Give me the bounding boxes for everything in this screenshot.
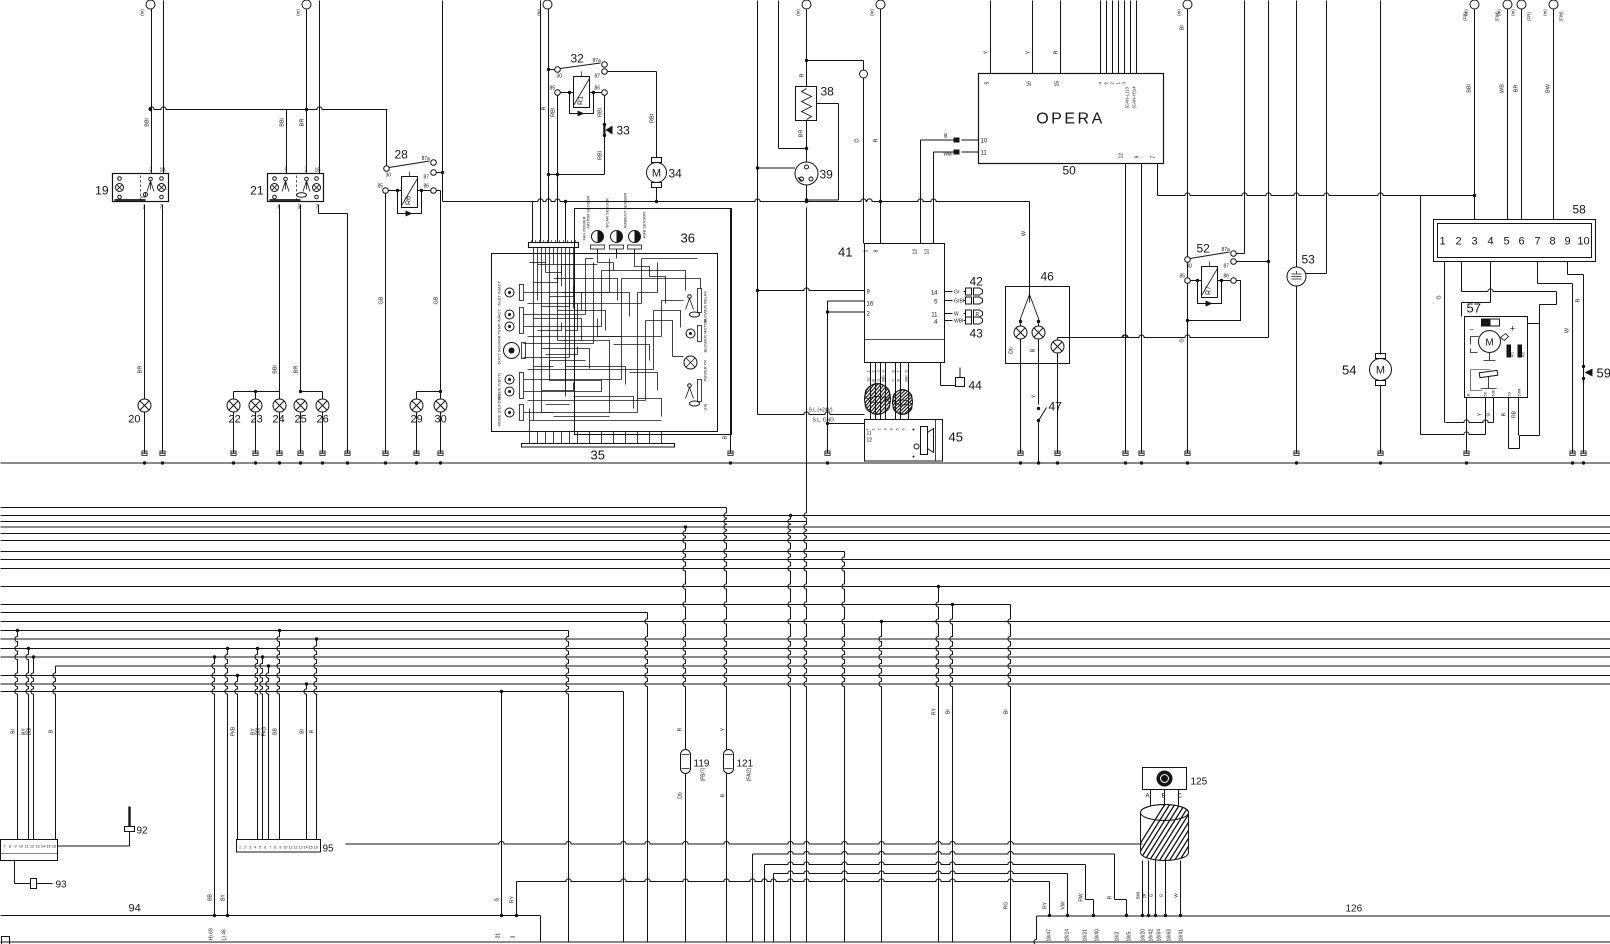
link to terminal O xyxy=(807,60,864,62)
svg-text:32: 32 xyxy=(571,52,585,66)
svg-text:18/2: 18/2 xyxy=(1115,932,1121,942)
svg-text:16: 16 xyxy=(52,845,56,849)
svg-text:BR: BR xyxy=(799,130,805,138)
switch unit 21 xyxy=(268,174,324,202)
svg-text:9: 9 xyxy=(14,845,16,849)
connector bar of unit 35 xyxy=(529,243,579,248)
lamp 29 xyxy=(416,392,418,400)
svg-text:4: 4 xyxy=(254,846,256,850)
svg-text:8: 8 xyxy=(1549,236,1555,248)
svg-text:VW: VW xyxy=(1061,901,1067,909)
unit 41 bottom pins xyxy=(870,363,872,420)
internal wiring of unit 35 xyxy=(533,248,535,421)
wire 58 pin2 loop xyxy=(1461,262,1463,292)
svg-text:R: R xyxy=(310,729,316,733)
svg-text:8: 8 xyxy=(874,250,880,253)
svg-text:(FW): (FW) xyxy=(1495,11,1500,21)
svg-text:3: 3 xyxy=(511,936,517,939)
relay 32 feed wires xyxy=(540,1,542,243)
svg-text:12: 12 xyxy=(30,845,34,849)
svg-text:BR: BR xyxy=(294,366,300,374)
svg-text:14: 14 xyxy=(41,845,45,849)
svg-text:21: 21 xyxy=(250,184,264,198)
band drops to connector 126 xyxy=(1049,882,1051,916)
bottom edge line xyxy=(1,941,1610,943)
switch unit 21 feed wires xyxy=(286,110,288,174)
wire 58 pin4 to 57 xyxy=(1490,262,1492,303)
svg-text:18/14: 18/14 xyxy=(1065,929,1071,942)
supply terminal at x=806 xyxy=(802,0,811,9)
svg-text:53: 53 xyxy=(1302,253,1316,267)
bus feeding box 36 / motor 34 xyxy=(443,199,1030,202)
svg-text:50: 50 xyxy=(1063,164,1077,178)
125 output wires to 126 xyxy=(1142,861,1144,916)
svg-text:1B: 1B xyxy=(315,168,322,174)
connector 94 xyxy=(1,840,58,861)
svg-text:INCAR SENSOR: INCAR SENSOR xyxy=(605,198,610,229)
svg-text:BB: BB xyxy=(273,728,279,735)
svg-text:AMBIENT SENSOR: AMBIENT SENSOR xyxy=(623,193,628,229)
svg-text:5: 5 xyxy=(259,846,261,850)
diode 33 branch from relay 32 terminal 86 xyxy=(604,95,606,174)
left pin wire of 39 xyxy=(758,167,796,169)
motor 34 wire to bus xyxy=(656,188,658,202)
wire bus top-left horizontal node xyxy=(149,107,388,110)
svg-text:(FA/2): (FA/2) xyxy=(747,767,753,781)
relay 52 wire 86 loop xyxy=(1188,281,1241,321)
svg-text:BBl: BBl xyxy=(1467,84,1473,93)
svg-text:18/42: 18/42 xyxy=(1149,929,1155,942)
svg-text:10: 10 xyxy=(283,846,287,850)
svg-text:A: A xyxy=(1145,794,1149,800)
svg-text:15: 15 xyxy=(46,845,50,849)
wire from 21 pin 3 xyxy=(300,205,302,392)
svg-text:12: 12 xyxy=(913,249,919,255)
svg-text:GrBl: GrBl xyxy=(954,299,964,305)
svg-text:5: 5 xyxy=(985,82,991,85)
svg-text:1B: 1B xyxy=(160,168,167,174)
svg-text:2: 2 xyxy=(1455,236,1461,248)
svg-text:11: 11 xyxy=(25,845,29,849)
svg-text:5: 5 xyxy=(285,168,288,174)
svg-text:R: R xyxy=(1502,412,1508,416)
svg-text:BBl: BBl xyxy=(280,118,286,127)
ground bus (top section) xyxy=(1,462,1610,464)
supply terminal at x=1474 xyxy=(1470,0,1479,9)
svg-text:Y: Y xyxy=(984,50,990,54)
svg-text:18/5: 18/5 xyxy=(1127,932,1133,942)
svg-text:22: 22 xyxy=(229,414,241,426)
svg-text:+: + xyxy=(1510,324,1515,334)
wire from 38 to sensor 39 xyxy=(806,121,808,163)
svg-text:BB: BB xyxy=(208,894,214,901)
supply terminal at x=547 xyxy=(543,0,552,9)
svg-text:BR: BR xyxy=(1514,85,1520,93)
svg-text:94: 94 xyxy=(129,903,141,915)
diode 33 xyxy=(603,123,606,126)
svg-text:13: 13 xyxy=(925,249,931,255)
svg-text:BBl: BBl xyxy=(905,375,909,381)
svg-text:(CAN-L)13: (CAN-L)13 xyxy=(1125,86,1130,108)
lamp 26 xyxy=(322,392,324,400)
svg-text:RY: RY xyxy=(510,895,516,903)
sensor 39 xyxy=(795,162,818,185)
wiper motor unit 57 xyxy=(1465,317,1528,398)
drop wires to connector 95 xyxy=(235,676,238,840)
svg-text:11: 11 xyxy=(931,313,938,319)
svg-text:1: 1 xyxy=(864,250,870,253)
svg-text:11: 11 xyxy=(867,431,872,437)
svg-text:87: 87 xyxy=(595,74,601,80)
relay 32 output 87 to motor 34 xyxy=(607,71,656,73)
svg-text:16: 16 xyxy=(1027,81,1033,87)
svg-text:12: 12 xyxy=(867,438,873,444)
svg-text:(m): (m) xyxy=(1511,9,1516,16)
svg-text:RB: RB xyxy=(1512,410,1518,418)
supply terminal at x=1521 xyxy=(1517,0,1526,9)
svg-text:RY: RY xyxy=(932,707,938,715)
svg-text:21: 21 xyxy=(496,933,502,939)
svg-text:WBl: WBl xyxy=(954,319,963,325)
svg-text:BLOWER MOTOR: BLOWER MOTOR xyxy=(703,319,708,352)
svg-text:9: 9 xyxy=(1564,236,1570,248)
svg-text:BR: BR xyxy=(138,366,144,374)
svg-text:B: B xyxy=(723,435,729,439)
lamp 3 in 46 xyxy=(1051,340,1064,353)
svg-text:14: 14 xyxy=(931,291,938,297)
svg-text:26: 26 xyxy=(317,414,329,426)
svg-text:Db: Db xyxy=(678,792,684,799)
svg-text:R6: R6 xyxy=(406,196,413,205)
svg-text:M: M xyxy=(1376,365,1385,377)
relay 28 output 86 to lamps 29/30 xyxy=(436,190,440,192)
wire from 19 pin 7 to ground bus xyxy=(162,205,164,454)
svg-text:18/40: 18/40 xyxy=(1095,929,1101,942)
selector symbol in 46 xyxy=(1021,295,1039,319)
svg-text:R7: R7 xyxy=(1206,286,1213,295)
svg-text:25: 25 xyxy=(295,414,307,426)
svg-text:38: 38 xyxy=(821,85,835,99)
svg-text:14: 14 xyxy=(304,846,308,850)
motor 34 xyxy=(652,158,662,163)
svg-text:3: 3 xyxy=(1471,236,1477,248)
svg-text:30: 30 xyxy=(557,74,563,80)
svg-text:R: R xyxy=(1576,298,1582,302)
svg-text:G: G xyxy=(495,897,501,901)
amplifier unit 45 xyxy=(865,420,943,462)
svg-text:54: 54 xyxy=(1342,363,1356,378)
lamp 20 xyxy=(138,399,151,412)
lamp 30 xyxy=(440,392,442,400)
svg-text:7: 7 xyxy=(3,845,5,849)
wire from supply to resistor 38 xyxy=(806,9,808,61)
branch wire to 39 xyxy=(778,1,780,149)
svg-text:56: 56 xyxy=(1483,391,1488,396)
HI relay contact in unit 35 xyxy=(688,384,692,388)
57 internal parts xyxy=(1482,319,1500,326)
svg-text:7: 7 xyxy=(269,846,271,850)
lamp 24 xyxy=(279,392,281,400)
svg-text:85: 85 xyxy=(378,184,384,190)
resistor 38 bypass wire xyxy=(817,103,839,105)
wire R to unit 41 pin 8 xyxy=(880,9,882,244)
switch unit 19 xyxy=(113,174,169,202)
svg-text:PkG: PkG xyxy=(262,727,268,737)
svg-text:10: 10 xyxy=(981,139,988,145)
long distribution wires xyxy=(1,507,727,509)
wire 58 pin7 W xyxy=(1537,262,1539,284)
svg-text:BY: BY xyxy=(221,894,227,901)
feeds from terminals to connector 58 xyxy=(1474,9,1476,220)
svg-text:POWER TR: POWER TR xyxy=(703,360,708,382)
relay 52 ground from 85 xyxy=(1187,284,1189,454)
svg-text:(m): (m) xyxy=(796,9,801,16)
relay 28 feed from node xyxy=(386,110,388,166)
relay 28 (R6) xyxy=(402,177,418,208)
svg-text:18/47: 18/47 xyxy=(1047,929,1053,942)
svg-text:45: 45 xyxy=(949,430,963,445)
blower motor symbol in unit 35 xyxy=(686,329,695,338)
svg-text:S.L. GND: S.L. GND xyxy=(813,418,835,424)
svg-text:15: 15 xyxy=(1055,81,1061,87)
svg-text:O: O xyxy=(855,138,861,143)
svg-text:Db: Db xyxy=(1009,347,1015,354)
svg-text:53M: 53M xyxy=(1517,389,1522,397)
svg-text:47: 47 xyxy=(1049,400,1063,414)
svg-text:BBl: BBl xyxy=(27,728,33,736)
svg-text:Bl: Bl xyxy=(11,729,17,733)
svg-text:W: W xyxy=(1565,327,1571,333)
svg-text:RG: RG xyxy=(1004,902,1010,910)
svg-text:8: 8 xyxy=(9,845,11,849)
svg-text:−: − xyxy=(1469,326,1474,335)
svg-text:INLET IN/ACT: INLET IN/ACT xyxy=(497,280,502,306)
connector 92 xyxy=(128,807,130,827)
svg-text:2: 2 xyxy=(305,168,308,174)
svg-text:Gr: Gr xyxy=(954,290,960,296)
svg-text:44: 44 xyxy=(969,379,983,393)
node wire from OPERA pin 7 to connector 58 pin 3 xyxy=(1158,193,1475,196)
svg-text:13: 13 xyxy=(299,846,303,850)
svg-text:95: 95 xyxy=(323,844,335,855)
relay 52 (R7) xyxy=(1202,267,1218,298)
svg-text:AMB SENSOR: AMB SENSOR xyxy=(642,212,647,239)
node under relay 32 xyxy=(549,174,605,176)
svg-text:Y: Y xyxy=(1026,50,1032,54)
lamp group bracket 25-26 xyxy=(301,391,323,393)
fuse 121 xyxy=(724,750,734,774)
svg-text:R: R xyxy=(721,793,727,797)
svg-text:18/63: 18/63 xyxy=(1167,929,1173,942)
lower band lines xyxy=(346,841,1143,844)
wire 58 pin1 G xyxy=(1444,262,1446,423)
svg-text:24: 24 xyxy=(273,414,285,426)
long ground drop wire x=806 xyxy=(804,208,807,942)
svg-text:46: 46 xyxy=(1041,270,1055,284)
svg-text:7: 7 xyxy=(1151,156,1157,159)
svg-text:(m): (m) xyxy=(1177,9,1182,16)
svg-text:85: 85 xyxy=(1180,274,1186,280)
indicator unit 46 xyxy=(1006,287,1070,364)
svg-text:5: 5 xyxy=(1503,236,1509,248)
svg-text:Br: Br xyxy=(1142,893,1147,898)
control unit 41 xyxy=(865,244,945,363)
svg-text:S.L.(+24V): S.L.(+24V) xyxy=(809,408,833,414)
fuse 119 xyxy=(681,750,691,774)
svg-text:(HI): (HI) xyxy=(703,403,708,410)
svg-text:93: 93 xyxy=(56,880,68,891)
svg-text:86: 86 xyxy=(1224,274,1230,280)
svg-text:18/20: 18/20 xyxy=(1141,929,1147,942)
svg-text:H) 69: H) 69 xyxy=(209,928,215,940)
svg-text:10: 10 xyxy=(1577,236,1589,248)
wire to motor 54 xyxy=(1380,1,1382,355)
OPERA pin 11 wire xyxy=(962,151,979,153)
heater cylinder of 125 xyxy=(1125,799,1244,869)
svg-text:(m): (m) xyxy=(1543,9,1548,16)
svg-text:M: M xyxy=(1485,338,1493,349)
svg-text:(m): (m) xyxy=(296,9,301,16)
svg-text:GB: GB xyxy=(434,296,440,304)
svg-text:FAN POWER: FAN POWER xyxy=(582,216,587,240)
svg-text:43: 43 xyxy=(970,327,984,341)
connector line 94 xyxy=(1,915,541,917)
device 53 ground wire xyxy=(1296,286,1298,454)
S.L. GND wire xyxy=(828,423,865,425)
svg-text:Gr: Gr xyxy=(867,377,871,382)
svg-text:RW: RW xyxy=(1079,893,1085,902)
svg-text:13: 13 xyxy=(35,845,39,849)
svg-text:92: 92 xyxy=(137,826,149,837)
svg-text:W: W xyxy=(1022,230,1028,236)
OPERA CAN bus wires xyxy=(1100,1,1102,74)
wire 44 stub xyxy=(940,363,942,386)
svg-text:34: 34 xyxy=(669,167,683,181)
svg-text:58: 58 xyxy=(1573,203,1587,217)
svg-text:G: G xyxy=(1437,295,1443,299)
svg-text:87a: 87a xyxy=(593,58,602,64)
svg-text:G: G xyxy=(877,379,881,382)
sensors on top of unit 35 xyxy=(592,231,604,243)
svg-text:53: 53 xyxy=(1507,391,1512,396)
svg-text:BBl: BBl xyxy=(882,375,886,381)
box 36 ground wire xyxy=(730,209,732,454)
svg-text:(FR): (FR) xyxy=(1527,12,1532,21)
svg-text:TEMP IN/ACT: TEMP IN/ACT xyxy=(497,309,502,335)
svg-text:RBl: RBl xyxy=(551,108,557,117)
svg-text:2: 2 xyxy=(150,168,153,174)
svg-text:86: 86 xyxy=(424,184,430,190)
svg-text:WB: WB xyxy=(1500,84,1506,93)
svg-text:35: 35 xyxy=(591,448,605,463)
svg-text:41: 41 xyxy=(838,245,852,260)
svg-text:33: 33 xyxy=(617,124,631,138)
supply terminal at x=1553 xyxy=(1549,0,1558,9)
57 R / RB wires xyxy=(1508,398,1510,449)
drop wires to line 94 (BB, BY) xyxy=(212,657,215,916)
svg-text:G: G xyxy=(1180,338,1186,342)
svg-text:16: 16 xyxy=(314,846,318,850)
svg-text:G: G xyxy=(1486,412,1492,416)
svg-text:11: 11 xyxy=(289,846,293,850)
svg-text:2: 2 xyxy=(244,846,246,850)
OPERA pin 10 wire xyxy=(962,139,979,141)
svg-text:W: W xyxy=(954,312,959,318)
svg-text:85: 85 xyxy=(550,86,556,92)
svg-text:(FW): (FW) xyxy=(1559,11,1564,21)
svg-text:BR: BR xyxy=(300,119,306,127)
svg-text:BBl: BBl xyxy=(145,118,151,127)
svg-text:9: 9 xyxy=(1135,156,1141,159)
lamp 25 xyxy=(294,399,307,412)
svg-text:BLOWER RELAY: BLOWER RELAY xyxy=(703,291,708,323)
svg-text:RBl: RBl xyxy=(598,108,604,117)
S.L. (+24V) wire xyxy=(758,412,865,415)
motor 54 xyxy=(1376,354,1386,359)
connector 58 xyxy=(1434,220,1596,262)
svg-text:RY: RY xyxy=(1043,901,1049,909)
relay 32 (R1) xyxy=(574,77,590,108)
svg-text:20: 20 xyxy=(128,414,140,426)
ground plate of unit 35 xyxy=(522,444,675,448)
connector 95 xyxy=(237,840,321,853)
blower relay contact in unit 35 xyxy=(688,295,692,299)
svg-text:12: 12 xyxy=(294,846,298,850)
svg-text:MODE (DL/FDEF): MODE (DL/FDEF) xyxy=(497,393,502,426)
svg-text:87a: 87a xyxy=(422,156,431,162)
motor 54 ground wire xyxy=(1380,386,1382,454)
svg-text:Bl: Bl xyxy=(300,729,306,733)
lamp in 46 (Db) xyxy=(1014,326,1027,339)
weave verticals xyxy=(566,631,569,942)
svg-text:18/41: 18/41 xyxy=(1179,929,1185,942)
wire to device 53 xyxy=(1296,1,1298,268)
svg-text:87: 87 xyxy=(424,175,430,181)
flame detector 125 xyxy=(1143,768,1187,790)
lamp group bracket 29-30 xyxy=(417,391,441,393)
svg-text:R: R xyxy=(1054,50,1060,54)
svg-text:30: 30 xyxy=(386,173,392,179)
relay 52 feed wire xyxy=(1187,9,1189,257)
svg-text:86: 86 xyxy=(595,86,601,92)
wire O to unit 41 pin 1 xyxy=(863,78,865,244)
svg-text:36: 36 xyxy=(681,231,695,246)
svg-text:3: 3 xyxy=(249,846,251,850)
svg-text:1: 1 xyxy=(1439,236,1445,248)
svg-text:39: 39 xyxy=(820,168,834,182)
svg-text:8: 8 xyxy=(274,846,276,850)
svg-text:B: B xyxy=(1466,394,1471,397)
svg-text:R: R xyxy=(1108,895,1114,899)
svg-text:6: 6 xyxy=(1518,236,1524,248)
svg-text:125: 125 xyxy=(1191,777,1208,788)
bus corner wire into unit 46 xyxy=(1029,202,1031,295)
svg-text:19: 19 xyxy=(95,184,109,198)
svg-text:11: 11 xyxy=(981,151,988,157)
svg-text:BW: BW xyxy=(1546,83,1552,93)
control unit 50 OPERA xyxy=(979,74,1164,164)
device 53 xyxy=(1287,267,1306,286)
svg-text:87: 87 xyxy=(1224,264,1230,270)
device 53 side wire xyxy=(1306,273,1327,275)
band left end drops xyxy=(752,854,754,942)
control unit box 35 xyxy=(492,254,718,432)
resistor 38 xyxy=(796,87,817,121)
wire from 19 pin 3 xyxy=(144,205,146,400)
svg-text:16: 16 xyxy=(867,302,874,308)
supply terminal at x=1187 xyxy=(1183,0,1192,9)
svg-text:59: 59 xyxy=(1597,366,1610,381)
